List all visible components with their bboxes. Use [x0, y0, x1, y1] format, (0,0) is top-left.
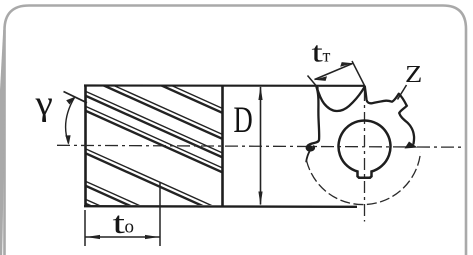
svg-text:Z: Z: [405, 61, 422, 88]
svg-text:o: o: [125, 217, 135, 238]
svg-text:т: т: [323, 46, 331, 66]
svg-text:γ: γ: [34, 84, 52, 123]
svg-text:t: t: [312, 37, 324, 68]
svg-text:t: t: [113, 207, 126, 241]
svg-text:D: D: [234, 99, 253, 140]
